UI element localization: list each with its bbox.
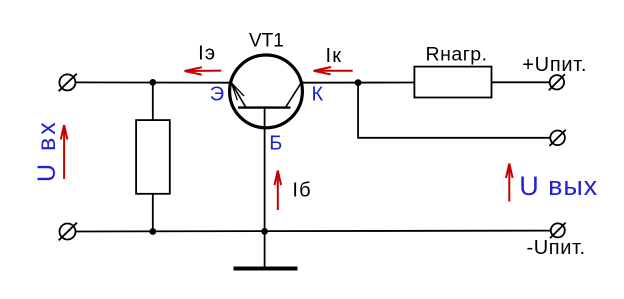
voltage arrow U вых — [506, 164, 513, 202]
wire resistor branch bottom — [152, 194, 154, 232]
svg-text:Б: Б — [269, 132, 282, 154]
voltage arrow U вх — [61, 125, 68, 179]
svg-text:Iб: Iб — [292, 180, 311, 202]
wire top input — [75, 81, 231, 83]
current arrow Iк — [314, 67, 353, 74]
svg-text:Iэ: Iэ — [198, 42, 216, 64]
svg-text:-Uпит.: -Uпит. — [527, 237, 586, 259]
node junction resistor top — [149, 79, 156, 86]
resistor R1 — [136, 120, 170, 194]
transistor VT1 — [230, 55, 303, 128]
node collector branch junction — [355, 79, 362, 86]
terminal input bottom-left — [59, 223, 77, 241]
wire base lead — [264, 108, 266, 267]
svg-text:К: К — [312, 83, 324, 105]
terminal input top-left — [59, 74, 77, 92]
wire resistor branch top — [152, 82, 154, 120]
svg-text:Э: Э — [210, 83, 224, 105]
terminal output mid-right — [550, 130, 566, 146]
wire load to +Uпит terminal — [492, 81, 550, 83]
node base-bus junction — [261, 228, 268, 235]
svg-text:Rнагр.: Rнагр. — [426, 43, 488, 65]
svg-text:U вых: U вых — [519, 171, 598, 201]
wire output branch — [358, 83, 550, 138]
svg-text:U вх: U вх — [33, 119, 61, 182]
terminal +Uпит — [549, 74, 565, 90]
node junction resistor bottom — [149, 228, 156, 235]
resistor Rнагр. — [414, 67, 491, 98]
current arrow Iэ — [185, 67, 222, 74]
current arrow Iб — [275, 171, 282, 211]
ground — [234, 267, 298, 271]
svg-text:VT1: VT1 — [249, 31, 284, 52]
wire collector to load — [302, 82, 415, 84]
svg-text:Iк: Iк — [326, 45, 343, 67]
terminal -Uпит bottom-right — [550, 223, 566, 239]
svg-text:+Uпит.: +Uпит. — [522, 54, 587, 76]
wire bottom bus — [76, 230, 551, 233]
